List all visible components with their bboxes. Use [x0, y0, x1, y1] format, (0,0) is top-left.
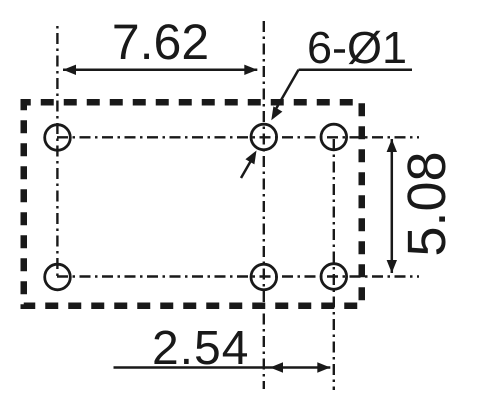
dimension text 7.62 [114, 24, 206, 59]
dimension line 7.62 [63, 69, 257, 72]
arrowhead 5.08 bottom [387, 260, 397, 273]
leader line 6-O1 slanted upper segment [275, 70, 299, 112]
component outline dashed rectangle [24, 102, 362, 306]
hole bottom-left [45, 264, 71, 290]
centerline H1 top row [57, 136, 419, 138]
leader line 6-O1 horizontal [299, 69, 413, 72]
leader line 6-O1 slanted lower segment [241, 156, 254, 178]
arrowhead 7.62 right [244, 65, 257, 75]
arrowhead 7.62 left [63, 65, 76, 75]
arrowhead 5.08 top [387, 139, 397, 152]
arrowhead leader upper (points to hole) [271, 106, 282, 120]
centerline V2 middle column [263, 21, 265, 389]
arrowhead 2.54 left [270, 362, 283, 372]
centerline H2 bottom row [57, 275, 419, 277]
hole top-middle [251, 124, 277, 150]
hole top-left [45, 125, 71, 151]
centerline V3 right column [333, 139, 335, 390]
label text 6-diameter-1 [309, 31, 405, 64]
dimension line 2.54 [114, 366, 331, 369]
dimension text 2.54 [154, 330, 247, 364]
arrowhead 2.54 right [317, 362, 330, 372]
arrowhead leader lower (points to hole) [245, 151, 256, 165]
hole bottom-right [321, 264, 347, 290]
centerline V1 left column [56, 26, 58, 278]
dimension text 5.08 (rotated) [407, 154, 445, 255]
hole bottom-middle [251, 264, 277, 290]
hole top-right [321, 124, 347, 150]
dimension line 5.08 [391, 139, 394, 273]
